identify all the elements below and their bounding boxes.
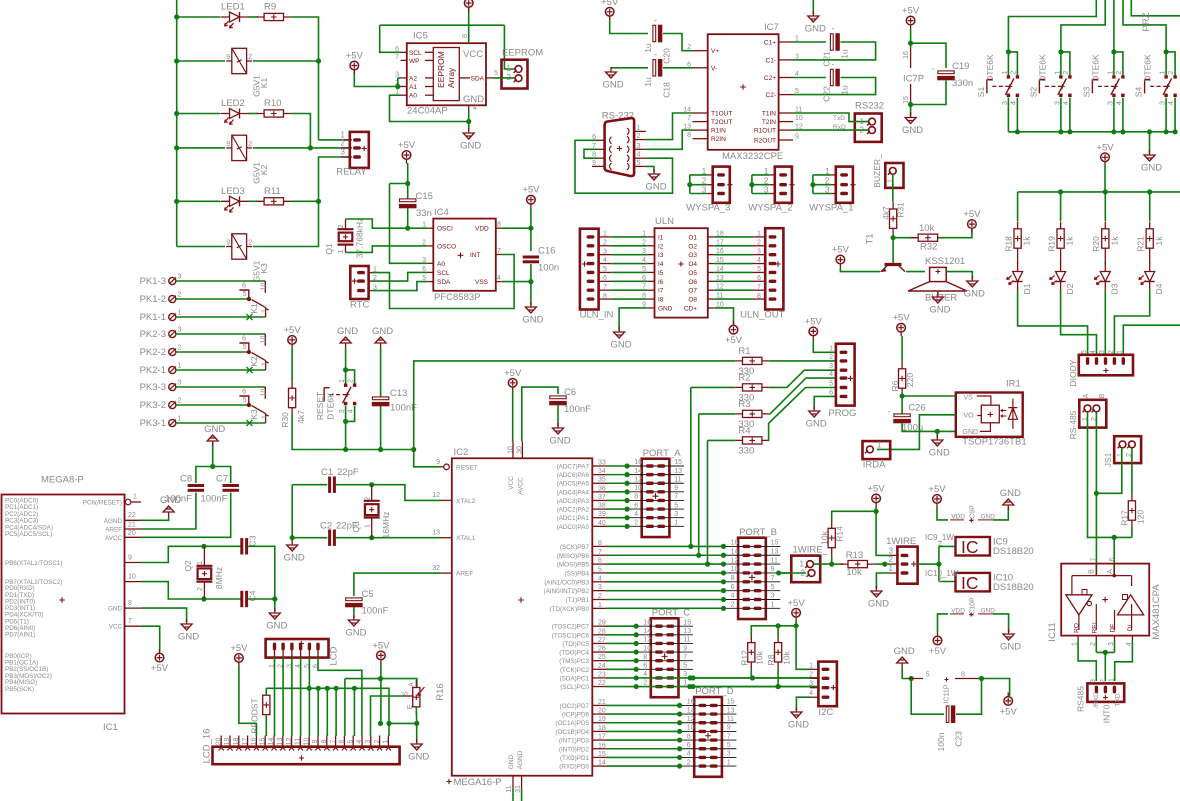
- junction: [690, 684, 695, 689]
- connector WYSPA_1: [836, 167, 853, 203]
- wire LED2: [177, 113, 220, 115]
- +5V supply: [809, 327, 818, 336]
- svg-text:6: 6: [598, 558, 602, 565]
- svg-text:Q3: Q3: [351, 521, 361, 533]
- svg-text:7: 7: [598, 549, 602, 556]
- svg-text:I7: I7: [658, 288, 664, 295]
- svg-text:VDD: VDD: [951, 607, 965, 614]
- wire: [769, 360, 836, 362]
- wire PB row: [606, 545, 724, 547]
- svg-text:GND: GND: [788, 720, 809, 731]
- svg-text:4: 4: [643, 671, 647, 678]
- svg-text:10k: 10k: [755, 650, 765, 664]
- wire: [813, 184, 831, 186]
- svg-text:2: 2: [338, 224, 345, 228]
- wire: [1166, 52, 1175, 75]
- svg-text:R1: R1: [738, 346, 750, 357]
- LED D3: [1104, 263, 1106, 291]
- junction: [343, 367, 348, 372]
- svg-text:GND: GND: [178, 632, 199, 643]
- wire GND pin: [512, 789, 514, 801]
- svg-text:RE/: RE/: [1091, 622, 1098, 633]
- svg-text:10: 10: [687, 725, 695, 732]
- wire: [346, 370, 355, 384]
- junction: [174, 14, 179, 19]
- svg-text:4: 4: [687, 751, 691, 758]
- IC ULN chip: [655, 228, 708, 317]
- wire: [707, 440, 709, 563]
- capacitor C16: [523, 256, 539, 259]
- cross mark: [247, 367, 253, 373]
- junction: [634, 684, 639, 689]
- wire C18 to V-: [663, 67, 693, 69]
- svg-text:11: 11: [295, 738, 302, 745]
- pin 3 A2: [401, 77, 407, 79]
- junction: [749, 182, 754, 187]
- svg-text:(TXD)PD1: (TXD)PD1: [560, 755, 590, 762]
- svg-text:K2: K2: [249, 356, 259, 367]
- junction: [687, 182, 692, 187]
- wire GND pin8: [141, 608, 187, 622]
- svg-text:3: 3: [365, 739, 372, 743]
- junction: [688, 544, 693, 549]
- svg-text:1: 1: [683, 680, 687, 687]
- wire PD row: [606, 713, 680, 715]
- IC IC9 DS18B20: [956, 537, 990, 556]
- svg-text:+5V: +5V: [928, 484, 946, 495]
- svg-text:1: 1: [727, 759, 731, 766]
- svg-text:PK2-3: PK2-3: [140, 329, 166, 340]
- pin 12 R1OUT: [779, 129, 793, 131]
- svg-text:D2: D2: [1065, 283, 1075, 294]
- wire to K2 coil: [177, 147, 225, 149]
- svg-text:2: 2: [1063, 71, 1070, 75]
- ground IC7P: [905, 113, 916, 124]
- wire DB9 pin2 to T1OUT: [646, 113, 693, 140]
- wire ULN_OUT 8: [715, 298, 753, 300]
- junction: [908, 41, 913, 46]
- svg-text:C2: C2: [320, 521, 332, 532]
- svg-text:GND: GND: [345, 628, 366, 639]
- svg-text:4: 4: [731, 593, 735, 600]
- wire PC row: [606, 660, 636, 662]
- svg-text:12: 12: [687, 716, 695, 723]
- svg-text:C26: C26: [908, 403, 925, 414]
- wire ULN_IN 4: [611, 263, 647, 265]
- junction: [343, 447, 348, 452]
- svg-text:R20: R20: [1091, 236, 1101, 252]
- svg-text:7: 7: [330, 739, 337, 743]
- pin row 14: [627, 474, 684, 476]
- pin row 16: [636, 625, 693, 627]
- svg-text:5: 5: [727, 742, 731, 749]
- svg-text:10: 10: [260, 283, 267, 291]
- ground IC11P: [897, 657, 908, 668]
- wire DB9 pin7 to pin8: [584, 149, 598, 158]
- wire to +5V: [982, 679, 1010, 697]
- IC IR1 TSOP1736: [956, 393, 1023, 437]
- wire R10 to RELAY pin2: [291, 114, 311, 148]
- wire LCD pin1: [274, 658, 276, 736]
- svg-text:5: 5: [243, 291, 247, 298]
- capacitor C15: [400, 199, 416, 202]
- svg-text:IC4: IC4: [434, 207, 449, 218]
- pin 8 R2IN: [693, 138, 708, 140]
- svg-text:15: 15: [683, 619, 691, 626]
- svg-text:34: 34: [598, 468, 606, 475]
- svg-text:7: 7: [771, 575, 775, 582]
- svg-text:10: 10: [260, 389, 267, 397]
- svg-text:2: 2: [178, 345, 182, 352]
- pin 31 AGND: [521, 776, 523, 789]
- wire: [769, 378, 836, 414]
- wire rail to R18: [1017, 192, 1019, 221]
- +5V supply IC11P: [1004, 697, 1013, 706]
- svg-text:1: 1: [1107, 71, 1114, 75]
- svg-text:3: 3: [727, 751, 731, 758]
- wire T1 collector to buzzer: [906, 271, 925, 273]
- wire PD row: [606, 730, 680, 732]
- +5V supply LCD: [235, 654, 244, 663]
- wire: [1096, 651, 1114, 653]
- svg-text:3: 3: [809, 681, 813, 688]
- svg-text:GND: GND: [1141, 163, 1162, 174]
- junction: [776, 623, 781, 628]
- svg-text:AREF: AREF: [456, 571, 473, 578]
- wire PK3-3: [176, 386, 265, 388]
- pin 13 R1IN: [693, 129, 708, 131]
- pin 10 PB7: [125, 581, 142, 583]
- junction: [395, 84, 400, 89]
- pad PK2-2: [169, 348, 176, 355]
- svg-text:PK3-3: PK3-3: [140, 382, 166, 393]
- junction: [174, 145, 179, 150]
- svg-text:DTE6K: DTE6K: [985, 54, 995, 82]
- capacitor C26: [894, 414, 910, 417]
- wire: [636, 686, 818, 688]
- svg-text:2: 2: [637, 133, 641, 140]
- wire C4 right: [248, 598, 275, 600]
- svg-text:I6: I6: [658, 279, 664, 286]
- wire: [708, 439, 736, 441]
- svg-text:VO: VO: [964, 413, 975, 420]
- svg-text:2: 2: [248, 141, 252, 148]
- wire AGND pin: [521, 789, 523, 801]
- connector ULN_OUT: [765, 228, 783, 309]
- svg-text:GND: GND: [658, 305, 673, 312]
- pad PK3-1: [169, 419, 176, 426]
- svg-text:22: 22: [598, 680, 606, 687]
- svg-text:5: 5: [829, 381, 833, 388]
- svg-text:7: 7: [687, 115, 691, 122]
- svg-text:XTAL2: XTAL2: [456, 498, 476, 505]
- connector BUZER_: [885, 163, 903, 188]
- svg-text:9: 9: [771, 566, 775, 573]
- pin row 16: [724, 545, 781, 547]
- crystal Q3 16MHz: [364, 501, 380, 518]
- svg-text:EEPROM: EEPROM: [502, 48, 543, 59]
- svg-text:RxD: RxD: [833, 124, 846, 131]
- svg-text:A: A: [1083, 393, 1090, 398]
- wire: [691, 386, 735, 388]
- wire to pin1: [388, 723, 390, 736]
- wire buzzer to GND: [946, 272, 972, 279]
- +5V supply: [605, 8, 614, 17]
- svg-text:WP: WP: [409, 58, 419, 65]
- svg-text:IC2: IC2: [454, 447, 469, 458]
- pin 9: [598, 165, 605, 167]
- IC IC2 MEGA16-P: [452, 458, 593, 775]
- svg-text:WYSPA_3: WYSPA_3: [686, 203, 730, 214]
- wire to R8: [777, 626, 779, 636]
- svg-text:8: 8: [731, 575, 735, 582]
- wire to IR1 VS: [902, 395, 956, 397]
- svg-text:2: 2: [341, 139, 346, 148]
- junction: [411, 447, 416, 452]
- svg-text:SCL: SCL: [437, 270, 450, 277]
- wire RTC1 to INT: [372, 255, 514, 309]
- svg-text:+5V: +5V: [868, 483, 886, 494]
- connector WYSPA_2: [775, 167, 792, 203]
- svg-text:B: B: [1099, 393, 1106, 398]
- +5V supply: [968, 220, 977, 229]
- svg-text:3: 3: [341, 148, 346, 157]
- svg-text:8: 8: [961, 672, 965, 679]
- capacitor C23: [946, 706, 949, 722]
- wire to pin7: [335, 688, 337, 736]
- pin 5 SDA: [427, 281, 433, 283]
- pin 4 I4: [647, 263, 654, 265]
- resistor R32: [911, 237, 945, 239]
- svg-text:R9: R9: [264, 2, 276, 13]
- pin: [1104, 256, 1106, 265]
- junction: [1147, 129, 1152, 134]
- svg-text:LED2: LED2: [221, 98, 245, 109]
- svg-text:C5: C5: [362, 589, 374, 600]
- wire PD row: [606, 748, 680, 750]
- svg-text:(TCK)PC2: (TCK)PC2: [560, 667, 590, 674]
- wire to RS485 pin2: [1104, 652, 1106, 681]
- svg-text:O2: O2: [688, 243, 697, 250]
- pin row 12: [680, 722, 737, 724]
- wire PB row: [606, 572, 724, 574]
- pin 1: [1077, 636, 1079, 641]
- wire C21 to C1-: [793, 42, 876, 60]
- junction: [174, 111, 179, 116]
- svg-text:10: 10: [731, 566, 739, 573]
- svg-text:20: 20: [128, 530, 136, 537]
- wire to GND: [416, 723, 418, 742]
- wire: [248, 113, 258, 115]
- resistor R13: [841, 563, 875, 565]
- svg-text:3: 3: [603, 248, 607, 255]
- IC11 receiver triangle: [1066, 595, 1092, 615]
- svg-text:MEGA8-P: MEGA8-P: [41, 475, 84, 486]
- wire: [769, 370, 836, 387]
- svg-text:330: 330: [738, 445, 754, 456]
- wire VCC pin7: [141, 626, 160, 652]
- wire +5V to C15: [407, 163, 409, 199]
- wire PB row: [606, 607, 724, 609]
- svg-text:10k: 10k: [919, 223, 935, 234]
- svg-text:DTE6K: DTE6K: [325, 392, 335, 420]
- wire to DS18B20: [918, 563, 939, 565]
- svg-text:+5V: +5V: [504, 368, 522, 379]
- junction: [634, 632, 639, 637]
- pin 14 T1OUT: [693, 112, 708, 114]
- svg-text:3: 3: [178, 380, 182, 387]
- svg-text:2: 2: [603, 239, 607, 246]
- svg-text:4: 4: [497, 275, 501, 282]
- svg-text:GND: GND: [805, 24, 826, 35]
- wire +5V to C20: [610, 20, 648, 34]
- svg-text:8: 8: [603, 293, 607, 300]
- wire PK1-3: [176, 280, 265, 282]
- svg-text:2: 2: [248, 240, 252, 247]
- ground above C8 C7: [207, 435, 218, 446]
- junction: [290, 535, 295, 540]
- junction: [634, 641, 639, 646]
- svg-text:5: 5: [347, 739, 354, 743]
- relay contact K3: [264, 387, 266, 399]
- svg-text:+5V: +5V: [902, 6, 920, 17]
- svg-text:(AIN0/INT2)PB2: (AIN0/INT2)PB2: [544, 588, 590, 595]
- pin row 2: [627, 525, 684, 527]
- svg-text:I1: I1: [658, 234, 664, 241]
- wire B to JS1 pin1: [1096, 448, 1121, 493]
- junction: [405, 226, 410, 231]
- junction: [696, 553, 701, 558]
- svg-text:12: 12: [731, 557, 739, 564]
- pin 12 XTAL2: [441, 499, 452, 501]
- ground IC4: [525, 302, 536, 313]
- wire: [1115, 641, 1133, 681]
- wire: [910, 105, 912, 116]
- wire ULN GND: [619, 308, 647, 330]
- wire C16 to GND: [530, 264, 532, 305]
- pin 5: [634, 165, 646, 167]
- svg-text:DIODY: DIODY: [1068, 359, 1078, 386]
- svg-text:(MISO)PB6: (MISO)PB6: [557, 553, 590, 560]
- svg-text:R13: R13: [846, 550, 863, 561]
- LED D4: [1149, 263, 1151, 291]
- svg-text:+5V: +5V: [284, 325, 302, 336]
- pin 5 I5: [647, 271, 654, 273]
- svg-text:4: 4: [356, 739, 363, 743]
- junction: [325, 686, 330, 691]
- svg-text:4: 4: [348, 409, 355, 413]
- svg-text:2: 2: [374, 739, 381, 743]
- svg-text:1: 1: [261, 415, 268, 419]
- wire to GND: [212, 443, 214, 467]
- pin 9 R2OUT: [779, 139, 793, 141]
- crystal Q2 8MHz: [196, 566, 212, 582]
- connector ULN_IN: [580, 229, 599, 310]
- svg-text:31: 31: [515, 785, 522, 793]
- junction: [1094, 491, 1099, 496]
- connector PORT_B: [738, 538, 766, 619]
- ground I2C: [791, 707, 802, 718]
- svg-text:S2: S2: [1029, 87, 1039, 98]
- svg-text:PRZ: PRZ: [1141, 12, 1152, 31]
- pin 7 INT: [496, 254, 502, 256]
- svg-text:1WIRE: 1WIRE: [886, 536, 916, 547]
- junction: [776, 570, 781, 575]
- svg-text:C18: C18: [661, 82, 671, 98]
- wire: [1123, 325, 1180, 356]
- svg-text:C20: C20: [661, 48, 671, 64]
- pin 2 A1: [401, 86, 407, 88]
- IC11 driver triangle: [1118, 595, 1144, 615]
- svg-text:PK1-3: PK1-3: [140, 276, 166, 287]
- svg-text:2: 2: [178, 398, 182, 405]
- svg-text:VDD: VDD: [951, 513, 965, 520]
- junction: [174, 58, 179, 63]
- wire T1IN to RS232 pin1: [793, 113, 868, 122]
- wire VDD: [502, 227, 531, 229]
- pad PK3-2: [169, 401, 176, 408]
- speaker BUZER KSS1201: [930, 267, 947, 281]
- svg-text:AVCC: AVCC: [105, 535, 122, 542]
- resistor R30: [291, 381, 293, 415]
- junction: [634, 649, 639, 654]
- pin: [937, 291, 939, 296]
- svg-text:C8: C8: [180, 474, 192, 485]
- junction: [677, 711, 682, 716]
- +5V supply: [464, 0, 473, 7]
- wire to EEPROM pin1: [504, 25, 514, 69]
- connector LCD_16: [213, 747, 400, 765]
- svg-text:16: 16: [731, 540, 739, 547]
- svg-text:/RXD: /RXD: [1093, 692, 1100, 708]
- wire C1+: [793, 41, 826, 43]
- LED LED1: [221, 12, 249, 28]
- svg-text:(TD(XCK)PB0: (TD(XCK)PB0: [549, 606, 589, 613]
- pin row 8: [636, 660, 693, 662]
- svg-text:11: 11: [506, 785, 513, 792]
- svg-text:IC: IC: [961, 537, 979, 557]
- pin 16 IC7P: [910, 47, 912, 68]
- wire to IC9: [939, 545, 956, 547]
- svg-text:IC11: IC11: [1047, 622, 1058, 641]
- svg-text:2: 2: [1108, 350, 1115, 354]
- svg-text:10k: 10k: [846, 567, 862, 578]
- svg-text:D1: D1: [1022, 283, 1032, 294]
- svg-text:-: -: [888, 407, 891, 417]
- svg-text:T1OUT: T1OUT: [711, 111, 732, 118]
- svg-text:JS1: JS1: [1103, 452, 1113, 467]
- svg-text:2: 2: [702, 177, 707, 186]
- svg-text:WYSPA_1: WYSPA_1: [809, 203, 853, 214]
- pin 8 I8: [647, 298, 654, 300]
- pin 3 A0: [427, 262, 433, 264]
- svg-text:14: 14: [268, 738, 275, 746]
- +5V supply: [527, 195, 536, 204]
- svg-text:(SS)PB4: (SS)PB4: [565, 570, 590, 577]
- wire: [1088, 412, 1132, 537]
- wire PB4 to 1WIRE_ pin2: [779, 572, 806, 574]
- IC IC4 PFC8583P: [433, 219, 496, 291]
- wire GND to switch: [345, 348, 347, 370]
- wire +5V to rail: [1104, 166, 1106, 192]
- wire: [1095, 641, 1097, 652]
- junction: [721, 588, 726, 593]
- wire +5V to VCC pin10: [512, 391, 514, 442]
- wire: [1061, 52, 1070, 75]
- svg-text:GND: GND: [549, 436, 570, 447]
- svg-text:1: 1: [1117, 350, 1124, 354]
- IC IC7 MAX3232CPE: [708, 34, 779, 150]
